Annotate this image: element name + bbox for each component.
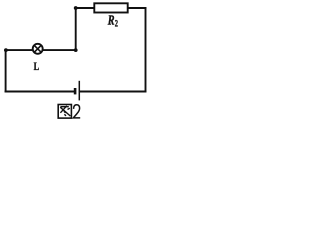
label R2 [107, 14, 118, 29]
wire left vertical [5, 50, 7, 92]
wire right vertical [145, 7, 147, 92]
resistor R2 [94, 3, 127, 12]
caption digit 2 [73, 105, 80, 118]
svg-text:R: R [107, 14, 115, 29]
junction node left [4, 48, 8, 52]
wire top-right segment [128, 7, 147, 9]
wire bottom-left segment [5, 91, 75, 93]
battery cell: short plate [74, 88, 77, 94]
lamp L [33, 44, 43, 54]
battery cell: long plate [78, 81, 80, 101]
junction node mid-top of riser [74, 6, 78, 10]
wire mid vertical [75, 7, 77, 51]
caption glyph 图 (drawn) [58, 105, 71, 119]
svg-text:L: L [34, 59, 40, 73]
wire top-left segment [75, 7, 95, 9]
svg-text:2: 2 [115, 18, 118, 28]
wire bottom-right segment [80, 91, 147, 93]
junction node mid-bottom of riser [74, 48, 78, 52]
wire lamp horizontal [5, 49, 77, 51]
